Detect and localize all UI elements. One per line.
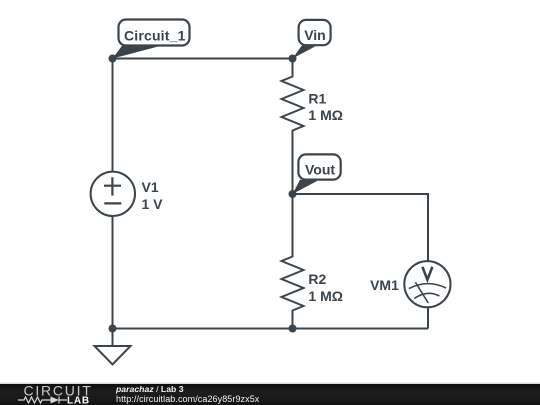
label R1 value <box>308 90 343 123</box>
node A: Circuit_1 junction dot <box>109 55 117 63</box>
wire top: Circuit_1 node to Vin node <box>113 58 293 60</box>
CircuitLab logo <box>0 384 110 405</box>
ground <box>95 329 131 365</box>
ground junction dot <box>109 325 117 333</box>
svg-text:Vout: Vout <box>305 161 335 177</box>
wire bottom: ground node to voltmeter bottom corner <box>113 328 429 330</box>
letter V inside voltmeter <box>422 267 432 280</box>
wire: voltmeter bottom to bottom wire <box>427 307 429 329</box>
svg-text:R1: R1 <box>308 90 326 106</box>
wire: V1 bottom terminal down to ground node <box>112 216 114 329</box>
svg-text:1 V: 1 V <box>142 196 164 212</box>
resistor R1 <box>282 59 304 195</box>
svg-text:VM1: VM1 <box>370 277 399 293</box>
svg-text:1 MΩ: 1 MΩ <box>308 288 343 304</box>
svg-text:LAB: LAB <box>67 396 90 405</box>
node Vin junction dot <box>289 55 297 63</box>
node label Circuit_1 <box>113 20 190 59</box>
wire: Vout node to voltmeter top <box>293 194 429 262</box>
svg-text:Circuit_1: Circuit_1 <box>124 28 186 44</box>
svg-text:Vin: Vin <box>304 27 326 43</box>
node label Vout <box>293 154 341 194</box>
label VM1 <box>370 277 399 293</box>
footer bar <box>0 384 540 405</box>
label V1 value <box>142 179 164 212</box>
wire left: top node down to V1 top terminal <box>112 59 114 173</box>
junction dot R2 bottom <box>289 325 297 333</box>
shadow above footer bar <box>0 382 540 384</box>
resistor R2 <box>282 194 304 329</box>
svg-text:1 MΩ: 1 MΩ <box>308 107 343 123</box>
node Vout junction dot <box>289 190 297 198</box>
label R2 value <box>308 271 343 304</box>
svg-text:V1: V1 <box>142 179 159 195</box>
svg-text:R2: R2 <box>308 271 326 287</box>
credit text <box>116 385 184 394</box>
voltmeter VM1 <box>404 261 450 307</box>
voltage source V1 <box>91 172 135 216</box>
node label Vin <box>293 20 331 59</box>
